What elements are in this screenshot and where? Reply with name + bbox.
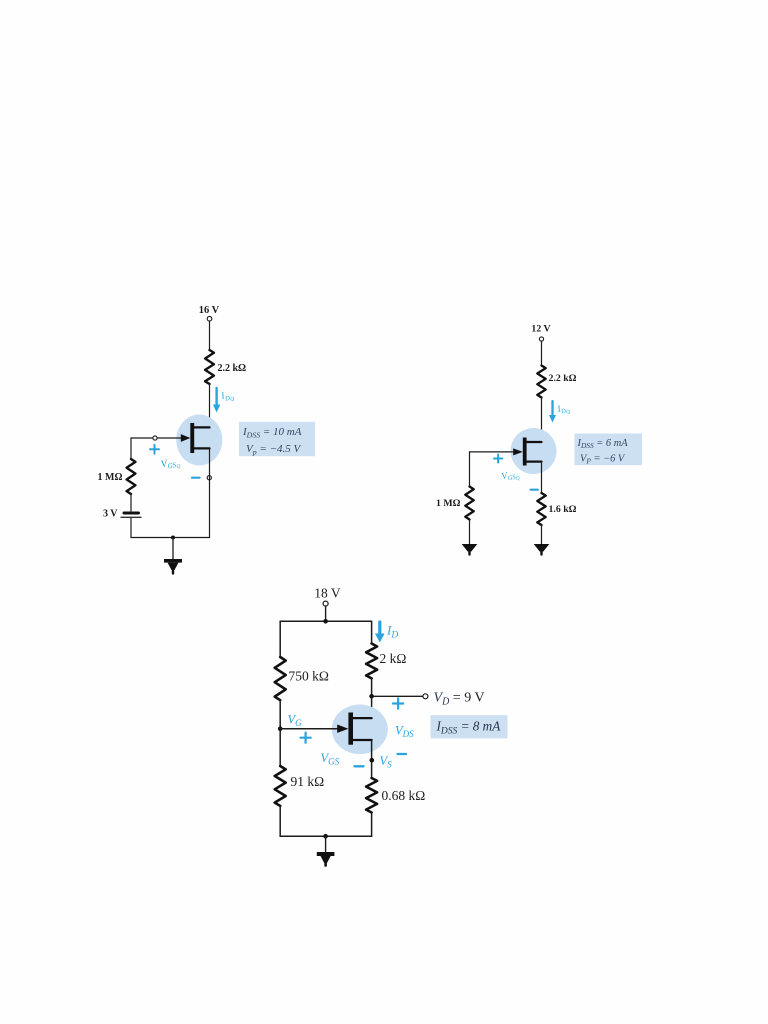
JFET Q2 source lead — [526, 461, 542, 463]
svg-text:VGSQ: VGSQ — [160, 456, 181, 474]
wire gate branch down — [130, 438, 132, 459]
value label 1 MOhm — [436, 498, 461, 509]
svg-text:16 V: 16 V — [199, 305, 220, 316]
svg-text:VDS: VDS — [395, 724, 414, 740]
JFET Q1 gate lead with arrowhead — [131, 434, 190, 442]
wire RG2 to ground — [469, 520, 471, 545]
junction VS — [370, 758, 375, 763]
ground symbol source side — [534, 544, 550, 555]
value label 1.6 kOhm — [549, 504, 577, 515]
VD terminal circle — [423, 694, 428, 699]
JFET Q1 highlight circle — [176, 415, 222, 466]
svg-text:VS: VS — [380, 754, 393, 770]
resistor R2 91 kOhm — [275, 766, 286, 806]
node VDD3 label 18 V — [314, 586, 341, 601]
svg-text:VGS: VGS — [321, 751, 340, 767]
current arrow IDQ2 — [549, 401, 556, 423]
svg-text:0.68 kΩ: 0.68 kΩ — [382, 788, 426, 803]
label VGSQ2 — [501, 469, 521, 485]
CIRCUIT 3 (bottom): voltage-divider bias JFET — [275, 586, 508, 866]
battery 3 V — [121, 513, 141, 517]
label VGS — [321, 751, 340, 767]
JFET Q3 source lead — [352, 739, 372, 741]
resistor R1 750 kOhm — [275, 657, 286, 700]
resistor RD1 2.2 kOhm — [205, 350, 214, 384]
wire supply to RD2 — [541, 341, 543, 366]
supply terminal circle — [207, 316, 212, 321]
value label 2 kOhm — [380, 651, 407, 666]
wire RS3 to bottom rail — [371, 813, 373, 837]
info box IDSS 3 — [431, 715, 508, 738]
supply terminal circle — [539, 337, 543, 341]
current arrow IDQ1 — [213, 388, 220, 413]
wire RD1 to drain — [209, 384, 211, 427]
plus sign VGSQ — [150, 445, 159, 454]
info box IDSS VP 2 — [575, 434, 643, 466]
resistor RG2 1 MOhm — [465, 487, 473, 520]
junction ground node — [171, 536, 175, 540]
svg-text:1 MΩ: 1 MΩ — [436, 498, 461, 509]
info box IDSS VP — [239, 422, 315, 457]
svg-text:1.6 kΩ: 1.6 kΩ — [549, 504, 577, 515]
JFET Q3 highlight circle — [332, 705, 388, 755]
JFET Q2 drain lead — [526, 441, 542, 443]
wire R2 to bottom rail — [279, 806, 281, 836]
value label 1 MOhm — [98, 472, 123, 483]
value label 0.68 kOhm — [382, 788, 426, 803]
value label 2.2 kOhm — [549, 373, 577, 384]
wire battery to bottom rail — [130, 517, 132, 537]
wire supply to top rail — [325, 606, 327, 621]
junction VG — [278, 726, 283, 731]
current label IDQ2 — [555, 401, 571, 417]
svg-text:VG: VG — [288, 713, 303, 729]
label VDS — [395, 724, 414, 740]
wire RD3 to VD node — [371, 678, 373, 718]
node label VG — [288, 713, 303, 729]
label VS — [380, 754, 393, 770]
svg-text:VD = 9 V: VD = 9 V — [434, 691, 485, 708]
plus sign VDS — [393, 698, 403, 708]
JFET Q3 drain lead — [352, 717, 372, 719]
minus sign VGS — [355, 765, 364, 767]
junction top rail — [323, 619, 328, 624]
wire source to RS2 — [541, 462, 543, 493]
wire gate branch down — [469, 452, 471, 487]
junction VD — [369, 694, 374, 699]
plus sign VGSQ2 — [494, 454, 502, 462]
node label VD = 9 V — [434, 691, 485, 708]
wire source down — [209, 448, 211, 537]
JFET Q1 channel bar — [190, 423, 194, 453]
wire source to VS node — [371, 740, 373, 778]
resistor RS2 1.6 kOhm — [537, 493, 545, 525]
svg-text:2 kΩ: 2 kΩ — [380, 651, 407, 666]
svg-text:3 V: 3 V — [103, 509, 118, 520]
gate terminal circle — [153, 436, 157, 440]
wire RS2 to ground — [541, 525, 543, 545]
supply terminal circle — [323, 601, 328, 606]
wire R1 to VG node — [279, 700, 281, 766]
svg-text:12 V: 12 V — [531, 324, 550, 335]
resistor RS3 0.68 kOhm — [366, 778, 377, 813]
wire supply to RD1 — [209, 321, 211, 350]
svg-text:VGSQ: VGSQ — [501, 469, 521, 485]
wire rail to RD3 — [371, 621, 373, 643]
node VDD2 label 12 V — [531, 324, 550, 335]
JFET Q3 channel bar — [348, 713, 353, 745]
resistor RG1 1 MOhm — [127, 459, 136, 494]
svg-text:ID: ID — [386, 623, 398, 641]
node VDD1 label 16 V — [199, 305, 220, 316]
svg-text:IDQ: IDQ — [219, 389, 235, 405]
svg-text:750 kΩ: 750 kΩ — [289, 669, 329, 684]
label VGSQ — [160, 456, 181, 474]
wire rail to R1 — [279, 621, 281, 657]
JFET Q3 gate lead with arrowhead — [280, 725, 348, 733]
JFET Q2 gate lead with arrowhead — [470, 448, 523, 455]
resistor RD2 2.2 kOhm — [537, 366, 545, 398]
JFET Q2 channel bar — [523, 438, 527, 466]
wire RG1 to battery — [130, 494, 132, 511]
ground symbol — [164, 538, 182, 574]
value label 750 kOhm — [289, 669, 329, 684]
ground symbol — [317, 836, 335, 865]
value label 2.2 kOhm — [218, 363, 247, 374]
value label 91 kOhm — [291, 774, 325, 789]
current label IDQ — [219, 389, 235, 405]
svg-text:IDQ: IDQ — [555, 401, 571, 417]
svg-text:2.2 kΩ: 2.2 kΩ — [218, 363, 247, 374]
bottom rail wire — [280, 835, 371, 837]
svg-text:18 V: 18 V — [314, 586, 341, 601]
JFET Q1 drain lead — [193, 426, 210, 428]
current arrow ID — [375, 622, 385, 643]
CIRCUIT 2 (right): self-bias JFET — [436, 324, 642, 555]
plus sign VGS — [301, 733, 311, 743]
battery label 3 V — [103, 509, 118, 520]
bottom rail wire — [131, 537, 210, 539]
minus sign VGSQ2 — [531, 489, 538, 491]
minus sign VDS — [398, 753, 407, 755]
source terminal circle — [207, 476, 211, 480]
svg-text:1 MΩ: 1 MΩ — [98, 472, 123, 483]
svg-text:2.2 kΩ: 2.2 kΩ — [549, 373, 577, 384]
ground symbol gate side — [462, 544, 478, 555]
current label ID — [386, 623, 398, 641]
JFET Q1 source lead — [193, 447, 210, 449]
wire RD2 to drain — [541, 398, 543, 443]
JFET Q2 highlight circle — [511, 428, 557, 474]
minus sign VGSQ — [192, 477, 200, 479]
top rail wire — [280, 620, 371, 622]
svg-text:91 kΩ: 91 kΩ — [291, 774, 325, 789]
resistor RD3 2 kOhm — [366, 644, 377, 679]
junction bottom rail — [323, 834, 328, 839]
wire VD tap — [372, 695, 423, 697]
CIRCUIT 1 (left): fixed-bias JFET — [98, 305, 315, 574]
